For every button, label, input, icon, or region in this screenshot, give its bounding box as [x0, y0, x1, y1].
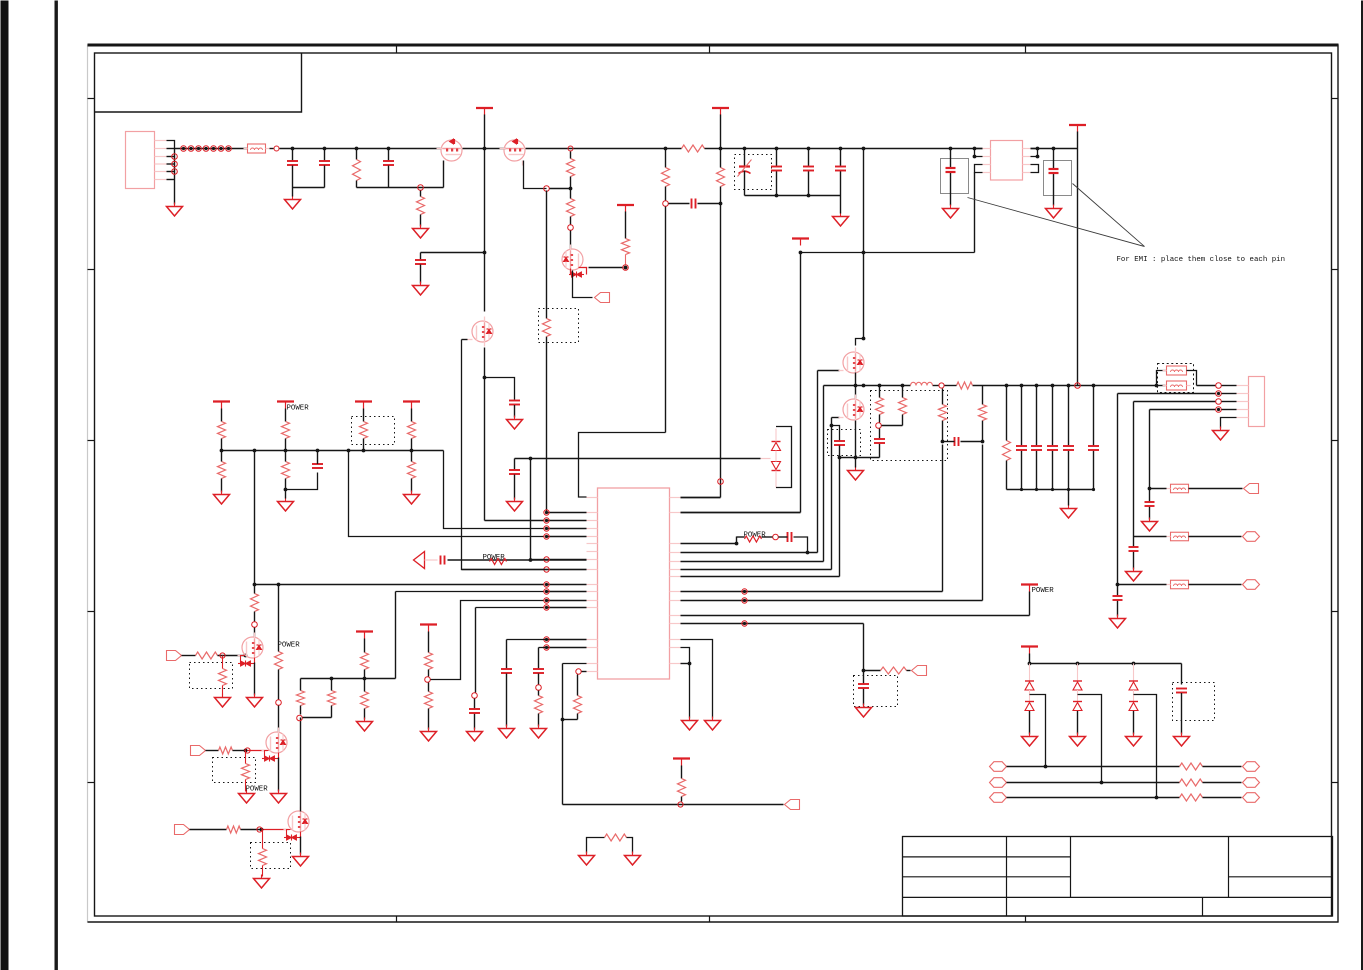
zener D5 — [772, 441, 781, 443]
junction x484/377 — [483, 376, 487, 380]
left border tick 3 — [88, 440, 95, 442]
res R16 leads — [331, 679, 333, 691]
capacitor C12 — [509, 400, 520, 402]
wire P7 stem — [428, 632, 430, 653]
cap C16 leads — [474, 699, 476, 709]
wire R27-R28 — [882, 425, 903, 427]
net circle Q3 gate — [623, 265, 629, 271]
wire x484 to Q4 — [484, 149, 486, 312]
junction x831/425 — [830, 424, 834, 428]
res R11 leads — [411, 451, 413, 462]
wire P6 stem — [364, 639, 366, 653]
capacitor C3 — [383, 160, 394, 162]
wire P5 stem — [1077, 132, 1079, 149]
net circle R3 top — [568, 146, 573, 151]
power flag ladder 4 — [403, 400, 420, 402]
wire Q8 source — [278, 758, 280, 792]
wire pin600R — [681, 600, 983, 602]
wire Q9 source — [300, 837, 302, 855]
title block h-line 1 — [903, 856, 1071, 858]
bottom border tick 3 — [1025, 916, 1027, 923]
power flag P5 — [1069, 124, 1086, 126]
wire Q3 gate row — [589, 267, 623, 269]
hex port right 1 — [1243, 762, 1260, 772]
res R32 leads — [1006, 386, 1008, 441]
cap C21 leads — [863, 671, 865, 684]
wire row663 — [1030, 663, 1182, 665]
diode pair 3 top lead — [1133, 664, 1135, 681]
wire Q4 down — [484, 348, 486, 521]
capacitor C5 (variable) — [739, 165, 750, 167]
connector J1 pin 1 stub — [155, 140, 167, 142]
junction 600 — [743, 599, 746, 602]
port tag T3 — [912, 666, 927, 676]
right border tick 1 — [1332, 98, 1339, 100]
hex port left 1 — [990, 762, 1007, 772]
wire Q2 source down — [524, 161, 547, 189]
wire x443 drop — [444, 451, 545, 529]
connector J2 pin stub y393 — [1237, 393, 1249, 395]
ground C24 — [1149, 518, 1151, 522]
ground C1 — [292, 196, 294, 200]
wire Q6 gnd stem — [855, 458, 857, 468]
capacitor C19 (series) — [787, 532, 789, 542]
power flag P3 — [712, 107, 729, 109]
junction port row 1 — [1044, 765, 1048, 769]
series pad dot 6 — [219, 147, 222, 150]
wire Q7 source — [254, 663, 256, 696]
series pad dot 4 — [204, 147, 207, 150]
svg-text:POWER: POWER — [1032, 587, 1055, 595]
resistor R24 — [605, 834, 627, 841]
wire U2 p2R — [1031, 149, 1038, 157]
ground C14 — [514, 498, 516, 502]
wire U1 pin L607 — [547, 607, 587, 609]
net circle R27 — [876, 423, 882, 429]
capacitor C22 — [874, 438, 885, 440]
wire x538 drop — [538, 648, 540, 669]
ground R21 — [538, 725, 540, 729]
junction R3 mid — [569, 187, 573, 191]
wire mid rail — [824, 385, 911, 387]
wire x395 riser — [395, 592, 397, 679]
junction bank low x1093 — [1092, 488, 1095, 491]
junction x665 rail — [664, 147, 668, 151]
junction C6 — [775, 147, 779, 151]
page left edge (light) — [87, 45, 89, 923]
wire Q4 gate — [462, 339, 468, 341]
cap C17 lower lead — [506, 674, 508, 727]
ferrite bead FB3 — [1167, 381, 1187, 390]
resistor R9 — [218, 462, 226, 479]
series pad circle 3 — [196, 146, 202, 152]
junction bank R32 — [1005, 384, 1009, 388]
series pad dot 5 — [212, 147, 215, 150]
wire pin663L — [563, 663, 587, 665]
net circle 393c — [1216, 391, 1222, 397]
net circle Q7 — [220, 653, 225, 658]
ground diode col 1 — [1029, 733, 1031, 737]
ferrite bead FB6 — [1171, 580, 1189, 589]
dashed box Q8 — [213, 758, 256, 783]
U1 pin stub L639 — [587, 639, 598, 641]
resistor R8 (bus series) — [682, 145, 705, 152]
ground diode col 3 — [1133, 733, 1135, 737]
resistor R26 — [881, 667, 907, 674]
resistor Q7 pulldown — [219, 669, 227, 686]
wire x817 riser — [817, 371, 819, 553]
esd link Q3 — [571, 268, 587, 275]
junction x950 rail — [949, 147, 953, 151]
U1 pin stub L528 — [587, 528, 598, 530]
resistor Q9 gate — [227, 826, 241, 833]
junction R10 bottom — [284, 488, 288, 492]
net circle 536 — [773, 534, 779, 540]
wire zener bypass — [776, 427, 792, 488]
junction 863/338 — [862, 337, 866, 341]
cap C26 leads — [1117, 585, 1119, 596]
junction 409c — [1217, 408, 1220, 411]
ground C10 — [1053, 205, 1055, 209]
wire J1 pin stub join — [167, 156, 175, 158]
bottom border tick 1 — [396, 916, 398, 923]
wire bus Q2-right — [526, 148, 682, 150]
resistor ladder top 4 — [408, 422, 416, 439]
wire pin647 corner — [539, 647, 547, 649]
wire diode mid branch 2 — [1078, 695, 1102, 783]
ground Q7 source — [254, 694, 256, 698]
net circle x428 — [425, 677, 431, 683]
net circle L559 — [544, 557, 549, 562]
wire x863 drop — [863, 149, 865, 339]
junction L520 — [545, 519, 548, 522]
junction bank x1036 — [1035, 384, 1039, 388]
connector J2 — [1249, 377, 1265, 427]
net circle Q8 — [245, 748, 250, 753]
junction C5 — [743, 147, 747, 151]
power flag P2 — [617, 204, 634, 206]
diode D11 — [1025, 701, 1034, 703]
wire Q9 gate red — [262, 829, 290, 831]
junction row458/530 — [529, 457, 533, 461]
net circle L569 — [544, 567, 549, 572]
ground Q8 pulldown — [246, 790, 248, 794]
diode D14 — [1129, 680, 1138, 682]
resistor R35 — [1180, 794, 1203, 801]
wire U2 p2L — [975, 149, 983, 157]
zener D6 leads — [775, 459, 777, 462]
zener D5 leads — [775, 429, 777, 442]
wire fb bypass b — [1187, 371, 1197, 386]
wire x562 drop — [562, 664, 564, 805]
diode pair 2 top lead — [1077, 664, 1079, 681]
capacitor C17 — [501, 668, 512, 670]
wire J1 pin stub join — [167, 179, 175, 181]
wire Q6 source — [855, 421, 857, 458]
resistor ladder top 1 — [218, 422, 226, 439]
wire Q7 gate2 — [218, 655, 246, 657]
capacitor C27 — [1176, 688, 1187, 690]
transistor Q3 — [562, 249, 583, 270]
wire x974 drop — [974, 173, 976, 253]
res R7 lead — [665, 149, 667, 168]
cap C12 lower lead — [514, 405, 516, 418]
res R15 leads — [300, 679, 302, 691]
resistor ladder top 3 — [360, 422, 368, 439]
U1 pin stub R663 — [670, 663, 681, 665]
junction x1117/584 — [1116, 583, 1120, 587]
wire cap C20 branch — [832, 426, 840, 441]
U1 pin stub L591 — [587, 591, 598, 593]
res R7 lower lead — [665, 187, 667, 201]
junction port row 2 — [1100, 781, 1104, 785]
wire x800 drop — [800, 253, 802, 513]
U2 pin stub L — [983, 164, 991, 166]
transistor Q2 — [504, 140, 525, 161]
bank capacitor x1052 — [1047, 445, 1058, 447]
bank capacitor x1068 — [1063, 445, 1074, 447]
junction x689/663 — [688, 662, 692, 666]
wire P1 stem — [484, 115, 486, 149]
net circle x1077 rail — [1075, 383, 1081, 389]
junction C1 — [291, 147, 295, 151]
resistor R32 — [1003, 441, 1011, 461]
diode pair 1 mid lead — [1029, 690, 1031, 702]
net circle R4 bottom — [568, 225, 574, 231]
ground C9 — [950, 205, 952, 209]
hex port H1 — [1243, 532, 1260, 542]
title block outline — [903, 837, 1333, 917]
ground R11 — [411, 491, 413, 495]
capacitor C7 — [803, 166, 814, 168]
ground bank — [1068, 505, 1070, 509]
junction x484/252 — [483, 251, 487, 255]
U1 pin stub L663 — [587, 663, 598, 665]
resistor R16 — [328, 691, 336, 706]
capacitor C21 — [858, 683, 869, 685]
power flag P4 — [792, 237, 809, 239]
wire 670 b — [907, 670, 911, 672]
resistor R13 (x254) — [251, 594, 259, 612]
res R23 lead — [681, 797, 683, 802]
cap C13 lower lead — [420, 265, 422, 284]
wire U2 p1R — [1031, 148, 1038, 150]
U1 pin stub R552 — [670, 552, 681, 554]
wire U1 pin L591 — [547, 591, 587, 593]
junction x982/441 — [981, 440, 985, 444]
wire port row 2 — [1007, 782, 1180, 784]
wire jog 719 — [563, 719, 578, 721]
U1 pin stub R497 — [670, 497, 681, 499]
U1 pin stub R623 — [670, 623, 681, 625]
junction bank low x1036 — [1035, 488, 1038, 491]
wire C1-C2 bottom — [293, 187, 325, 189]
left border tick 1 — [88, 98, 95, 100]
wire x839 riser — [839, 458, 841, 577]
left border tick 5 — [88, 782, 95, 784]
diode pair 3 mid lead — [1133, 690, 1135, 702]
wire row607 — [476, 607, 545, 609]
wire P10 stem — [1029, 654, 1031, 664]
ground Q8 source — [278, 790, 280, 794]
ground diode col 2 — [1077, 733, 1079, 737]
wire Q5-Q6 link — [855, 373, 857, 399]
wire Q4 to pin520 — [485, 520, 545, 522]
wire bus Q1-Q2 — [463, 148, 506, 150]
bank capacitor x1021 — [1016, 445, 1027, 447]
wire 536 to row552 — [794, 537, 808, 553]
wire x942 riser — [942, 445, 944, 592]
ground Q9 source — [300, 853, 302, 857]
wire x863 to Q5 — [856, 339, 864, 346]
wire 488 row b — [1189, 488, 1243, 490]
power flag P1 — [476, 107, 493, 109]
cap C2 lead — [324, 149, 326, 161]
capacitor C4 (coupling) — [691, 199, 693, 209]
wire ladder row 450 — [222, 450, 444, 452]
wire 536 a — [737, 536, 745, 538]
cap C20 lower lead — [839, 446, 841, 458]
capacitor C6 — [771, 166, 782, 168]
resistor R23 — [678, 779, 686, 797]
bank cap lead x1021 — [1021, 386, 1023, 446]
power flag P10 — [1021, 645, 1038, 647]
junction Q7 — [244, 654, 248, 658]
U1 pin stub L671 — [587, 671, 598, 673]
wire pin671 — [582, 671, 587, 673]
ferrite bead FB1 — [248, 144, 266, 153]
junction bank x1068 — [1067, 384, 1071, 388]
ground R18 — [364, 718, 366, 722]
net circle 385c — [1216, 383, 1222, 389]
wire ladder stem 2 — [285, 409, 287, 422]
wire J1 pin stub join — [167, 163, 175, 165]
capacitor C1 — [287, 160, 298, 162]
wire x1133 corner536 — [1134, 536, 1167, 538]
junction row450 — [284, 449, 288, 453]
junction L536 — [545, 535, 548, 538]
wire Q9 pulldown leads — [262, 830, 264, 849]
capacitor C20 — [834, 440, 845, 442]
wire pin569 join — [462, 569, 547, 571]
resistor R18 — [361, 692, 369, 709]
wire Q5 gate — [818, 370, 840, 372]
U1 pin stub R543 — [670, 543, 681, 545]
res R20 leads — [428, 683, 430, 692]
outer frame top (thick) — [88, 44, 1339, 47]
annotation leader 2 — [1073, 184, 1145, 247]
resistor Q8 gate — [219, 747, 233, 754]
wire row458 — [515, 458, 761, 460]
hex port right 3 — [1243, 793, 1260, 803]
junction L639 — [545, 638, 548, 641]
junction pin543 — [735, 542, 739, 546]
net circle x254 — [252, 622, 258, 628]
connector J2 pin stub y417 — [1237, 417, 1249, 419]
right black rule — [1361, 1, 1363, 970]
wire bus right segment — [705, 148, 983, 150]
junction L584 — [545, 583, 548, 586]
ic U1 body — [598, 488, 670, 679]
wire J1 pin stub join — [167, 148, 175, 150]
wire row409 — [1150, 409, 1216, 411]
wire bank bottom — [1007, 489, 1094, 491]
connector J2 pin stub y385 — [1237, 385, 1249, 387]
wire x800 to IC pin512 — [681, 512, 801, 514]
cap C5 lower lead — [744, 171, 746, 196]
series pad circle 4 — [203, 146, 209, 152]
junction C7b — [807, 194, 811, 198]
resistor R14 (x278) — [275, 652, 283, 670]
capacitor C8 — [835, 166, 846, 168]
wire pin559 join — [531, 559, 547, 561]
ground R20 — [428, 728, 430, 732]
wire U1 pin L536 — [547, 536, 587, 538]
esd diode pair Q3 — [572, 272, 577, 277]
wire Q8 pulldown leads — [245, 751, 247, 764]
wire x863 drop2 — [863, 624, 865, 671]
junction x1053 rail — [1052, 147, 1056, 151]
wire ladder stem 3 — [363, 409, 365, 422]
net circle node1 — [418, 185, 424, 191]
ground C12 — [514, 416, 516, 420]
junction P4 — [799, 251, 803, 255]
series pad circle 1 — [181, 146, 187, 152]
shield box B2 — [1044, 161, 1072, 196]
wire 252 row — [801, 252, 975, 254]
dashed box D2 — [735, 155, 772, 190]
net circle L639 — [544, 637, 549, 642]
junction C3 — [387, 147, 391, 151]
res R27 leads — [879, 386, 881, 398]
wire port row 1b — [1203, 766, 1242, 768]
cap C14 top lead — [514, 459, 516, 470]
esd link Q9 — [287, 830, 301, 838]
cap C2 lower lead — [324, 166, 326, 188]
ground Q7 pulldown — [222, 694, 224, 698]
wire ladder mid 3 — [363, 439, 365, 451]
U1 pin stub L512 — [587, 512, 598, 514]
junction circle pin5 — [172, 169, 178, 175]
junction rail385 x855 — [854, 384, 858, 388]
ground C17 — [506, 725, 508, 729]
title block h-line 2b — [1229, 876, 1333, 878]
power flag ladder 2 — [277, 400, 294, 402]
U1 pin stub L647 — [587, 647, 598, 649]
ferrite bead FB4 — [1171, 484, 1189, 493]
wire x720 drop — [720, 149, 722, 168]
connector J1 pin 5 stub — [155, 171, 167, 173]
diode D15 — [1129, 701, 1138, 703]
junction row584b — [277, 583, 281, 587]
diode D13 — [1073, 701, 1082, 703]
bank cap lead x1068 — [1068, 386, 1070, 446]
svg-text:POWER: POWER — [287, 405, 310, 413]
junction bank x1052 — [1051, 384, 1055, 388]
resistor Q7 gate — [196, 652, 218, 659]
wire port row 3 — [1007, 797, 1180, 799]
wire J2 pin5 gnd — [1221, 418, 1237, 429]
hex port left 2 — [990, 778, 1007, 788]
wire C15 to power res — [448, 559, 531, 561]
top border tick 1 — [396, 45, 398, 54]
diode D12 — [1073, 680, 1082, 682]
wire Q3 source — [573, 271, 593, 298]
wire x1077 drop — [1077, 149, 1079, 386]
hex port H2 — [1243, 580, 1260, 590]
power flag P8 — [673, 757, 690, 759]
ground C26 — [1117, 615, 1119, 619]
